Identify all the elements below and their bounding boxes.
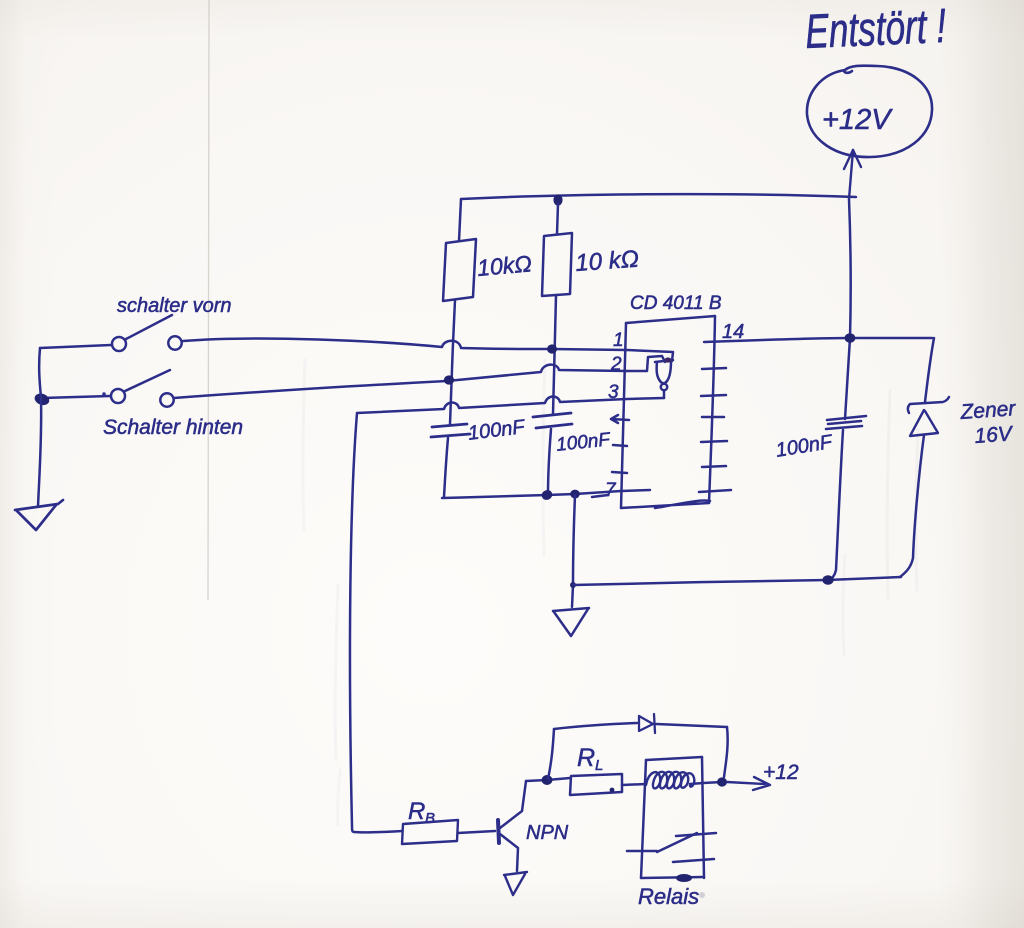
wire C2 to ground bus <box>548 429 551 494</box>
label Relais <box>638 874 705 909</box>
label RB <box>408 798 435 827</box>
transistor Q1 NPN <box>498 781 526 871</box>
wire down to RB <box>350 413 402 832</box>
svg-text:CD 4011 B: CD 4011 B <box>630 293 722 314</box>
svg-text:10kΩ: 10kΩ <box>476 250 533 281</box>
junction dot C3/bus <box>822 575 833 585</box>
junction dot rail/pin14 <box>845 333 856 343</box>
svg-text:R: R <box>408 798 425 825</box>
junction dot top of R2 <box>553 194 562 205</box>
wire rail to S2 <box>42 396 110 398</box>
resistor RL <box>570 774 622 795</box>
left ground rail <box>38 348 41 507</box>
NAND gate U1a <box>655 357 673 398</box>
capacitor C2 <box>533 413 572 428</box>
junction dot C2/bus <box>540 488 554 501</box>
svg-text:2: 2 <box>610 354 622 375</box>
flyback diode down wire <box>724 727 728 777</box>
bleed-through smudges <box>303 360 918 825</box>
svg-text:schalter vorn: schalter vorn <box>117 295 232 317</box>
wire coil out to +12 <box>703 782 722 783</box>
switch S2 <box>102 370 174 407</box>
wire gate output pin3 to base line <box>357 396 664 413</box>
junction dot collector <box>542 775 553 785</box>
resistor R1 <box>443 199 476 301</box>
junction blob rail/S2 <box>33 392 51 407</box>
+12V rail wire <box>845 199 851 419</box>
wire R2 to C2 <box>553 295 556 414</box>
wire pin2 to gate <box>627 356 665 371</box>
wire S2 to pin2 <box>174 365 627 398</box>
ground symbol mid <box>553 608 589 636</box>
flyback diode top wire <box>554 723 637 729</box>
wire collector to RL <box>526 778 570 781</box>
bottom-right bus wire <box>573 577 901 585</box>
junction dot diode/+12 <box>717 777 727 786</box>
IC U1 CD4011 outline <box>621 316 715 508</box>
wire bus to mid ground <box>572 495 575 607</box>
svg-text:100nF: 100nF <box>555 429 612 456</box>
relay K1 box <box>641 757 704 878</box>
switch S1 <box>112 315 182 351</box>
svg-text:1: 1 <box>613 330 624 351</box>
ground symbol left <box>15 500 63 530</box>
capacitor C3 <box>826 416 866 429</box>
relay coil <box>646 772 703 789</box>
top supply wire <box>461 194 856 199</box>
ground bus wire <box>442 490 650 498</box>
svg-text:Schalter hinten: Schalter hinten <box>103 416 243 439</box>
pin ticks left side <box>611 415 629 473</box>
resistor R2 <box>542 204 572 296</box>
capacitor C1 <box>431 424 470 437</box>
svg-text:L: L <box>595 757 603 774</box>
flyback diode D1 riser <box>548 729 554 779</box>
resistor RB <box>402 820 495 844</box>
wire pin1 to gate <box>627 350 673 361</box>
+12 arrow <box>727 777 770 790</box>
svg-text:NPN: NPN <box>526 822 569 844</box>
svg-text:10 kΩ: 10 kΩ <box>574 246 639 277</box>
+12V arrow into bubble <box>844 150 861 199</box>
+12V supply bubble <box>807 66 932 157</box>
svg-text:16V: 16V <box>974 422 1015 448</box>
svg-text:B: B <box>425 810 435 827</box>
svg-text:+12V: +12V <box>822 104 893 136</box>
label Entstoert <box>804 0 947 58</box>
svg-text:Relais: Relais <box>638 884 699 909</box>
svg-text:Entstört !: Entstört ! <box>804 0 947 58</box>
svg-text:100nF: 100nF <box>774 431 835 462</box>
wire RL to relay <box>622 784 646 785</box>
junction dot pin1/R2 <box>547 344 557 353</box>
wire C3 to bottom bus <box>829 430 843 580</box>
label Zener 16V <box>959 397 1017 448</box>
pin7 double stroke <box>592 495 608 497</box>
pin14 wire to rail <box>704 338 932 342</box>
ground symbol Q1 <box>504 872 527 895</box>
pin ticks right side <box>699 368 731 492</box>
paper crease <box>208 0 209 600</box>
svg-text:+12: +12 <box>763 761 799 784</box>
zener diode D2 <box>900 338 949 577</box>
svg-text:100nF: 100nF <box>467 416 528 445</box>
flyback diode wire right <box>656 724 727 727</box>
junction dot bus/ground <box>570 490 580 499</box>
svg-text:R: R <box>577 744 595 772</box>
relay switch contacts <box>627 833 716 862</box>
wire S1 to pin1 <box>183 339 627 350</box>
junction dot mid <box>570 582 576 588</box>
label RL <box>577 744 603 774</box>
svg-text:Zener: Zener <box>959 397 1017 424</box>
junction dot S2-line/R1 <box>444 375 454 384</box>
wire rail to S1 <box>40 345 111 348</box>
flyback diode D1 <box>639 714 655 733</box>
wire R1 to C1 <box>450 300 455 424</box>
wire C1 to ground bus <box>444 438 448 497</box>
